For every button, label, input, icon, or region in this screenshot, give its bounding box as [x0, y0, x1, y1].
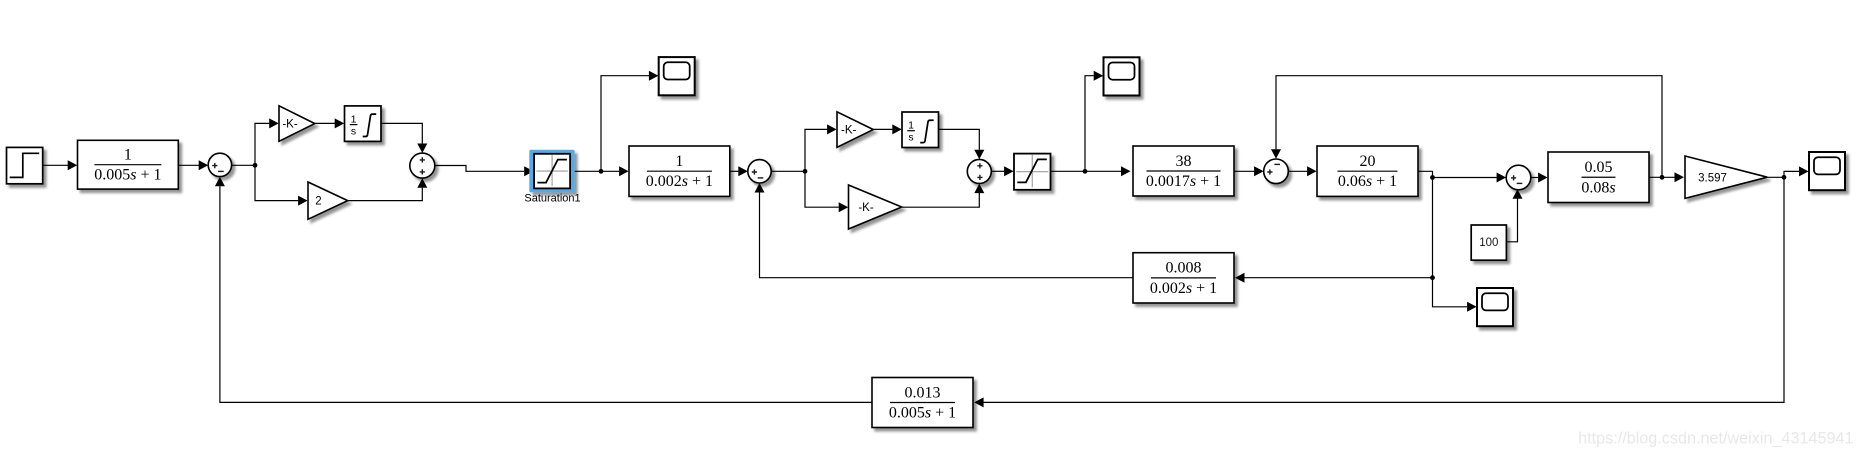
transfer function 0.05/(0.08s): [1548, 152, 1649, 203]
node feedback branch: [1430, 275, 1435, 280]
wire: [805, 171, 839, 207]
gain -K- G3: [837, 112, 873, 148]
svg-text:-K-: -K-: [282, 118, 298, 130]
wire: [1432, 178, 1434, 278]
wire: [220, 186, 872, 402]
transfer function 0.013/(0.005s+1): [872, 378, 973, 428]
wire: [1051, 170, 1121, 172]
wire: [873, 128, 892, 130]
scope Scope3: [1477, 288, 1513, 326]
svg-text:0.005s + 1: 0.005s + 1: [889, 405, 956, 422]
wire: [232, 164, 256, 166]
integrator 1/s I2: [902, 112, 939, 148]
svg-text:s: s: [351, 126, 356, 138]
saturation block Saturation1 (selected): [524, 150, 580, 205]
svg-text:1: 1: [124, 147, 132, 164]
sum junction S2: [410, 153, 435, 178]
svg-text:https://blog.csdn.net/weixin_4: https://blog.csdn.net/weixin_43145941: [1578, 430, 1853, 448]
svg-text:0.008: 0.008: [1166, 260, 1202, 277]
gain 3.597 G5: [1685, 156, 1767, 198]
wire: [255, 165, 298, 200]
wire: [1085, 76, 1094, 172]
node after G5: [1782, 175, 1787, 180]
sum junction S4: [967, 159, 991, 183]
gain -K- G1: [279, 106, 315, 142]
svg-text:0.05: 0.05: [1585, 159, 1613, 176]
svg-text:Saturation1: Saturation1: [524, 193, 580, 205]
scope Scope1: [659, 57, 695, 95]
wire: [1784, 171, 1799, 177]
svg-text:0.0017s + 1: 0.0017s + 1: [1146, 173, 1221, 190]
wire: [991, 170, 1004, 172]
wire: [435, 166, 524, 172]
svg-text:-K-: -K-: [858, 202, 874, 214]
wire: [179, 164, 200, 166]
svg-text:0.06s + 1: 0.06s + 1: [1338, 173, 1397, 190]
wire: [315, 122, 335, 124]
wire: [348, 188, 423, 201]
node after S1: [253, 163, 258, 168]
node after Saturation2: [1083, 169, 1088, 174]
wire: [1433, 177, 1497, 179]
sum junction S1: [208, 153, 231, 176]
svg-text:0.002s + 1: 0.002s + 1: [646, 173, 713, 190]
sum junction S3: [748, 160, 771, 183]
wire: [255, 123, 269, 165]
wire: [805, 129, 827, 171]
sum junction S5: [1264, 159, 1289, 184]
node after Saturation1: [599, 169, 604, 174]
gain -K- G4: [849, 185, 902, 229]
scope Scope4: [1809, 152, 1845, 190]
saturation block Saturation2: [1014, 154, 1051, 190]
wire top feedback: [1276, 76, 1662, 178]
wire: [381, 123, 422, 143]
transfer function 1/(0.005s+1): [78, 140, 179, 189]
wire: [575, 170, 620, 172]
wire: [771, 170, 805, 172]
wire bottom feedback: [984, 177, 1785, 402]
svg-text:1: 1: [351, 113, 357, 125]
constant 100: [1471, 225, 1506, 260]
wire: [1288, 170, 1307, 172]
transfer function 1/(0.002s+1): [629, 146, 730, 196]
svg-text:3.597: 3.597: [1698, 172, 1727, 184]
wire: [902, 193, 980, 207]
svg-text:0.005s + 1: 0.005s + 1: [94, 167, 161, 184]
wire: [1418, 171, 1432, 177]
transfer function 20/(0.06s+1): [1317, 146, 1418, 196]
wire: [43, 164, 68, 166]
svg-text:-K-: -K-: [841, 124, 857, 136]
svg-text:s: s: [908, 132, 913, 144]
gain 2 G2: [308, 182, 348, 219]
wire: [1507, 198, 1518, 241]
svg-text:1: 1: [908, 119, 914, 131]
svg-text:0.013: 0.013: [905, 384, 941, 401]
svg-text:0.002s + 1: 0.002s + 1: [1150, 280, 1217, 297]
wire: [1244, 277, 1432, 279]
svg-text:2: 2: [315, 196, 321, 208]
transfer function 0.008/(0.002s+1): [1133, 253, 1234, 303]
wire: [601, 76, 649, 172]
wire: [730, 170, 739, 172]
integrator 1/s I1: [345, 106, 382, 141]
node after 20/(0.06s+1): [1430, 175, 1435, 180]
node after S3: [803, 169, 808, 174]
wire: [1767, 176, 1784, 178]
sum junction S6: [1506, 165, 1531, 190]
wire: [1234, 170, 1254, 172]
scope Scope2: [1104, 57, 1140, 95]
svg-text:20: 20: [1360, 153, 1376, 170]
wire: [939, 129, 980, 149]
wire: [1531, 177, 1538, 179]
step source: [7, 147, 43, 183]
wire: [1649, 176, 1674, 178]
svg-text:1: 1: [675, 153, 683, 170]
svg-text:0.08s: 0.08s: [1581, 179, 1615, 196]
node after 0.05/0.08s: [1660, 175, 1665, 180]
transfer function 38/(0.0017s+1): [1133, 146, 1234, 196]
svg-text:38: 38: [1176, 153, 1192, 170]
wire: [1433, 278, 1468, 307]
wire: [760, 192, 1134, 277]
svg-text:100: 100: [1479, 237, 1498, 249]
